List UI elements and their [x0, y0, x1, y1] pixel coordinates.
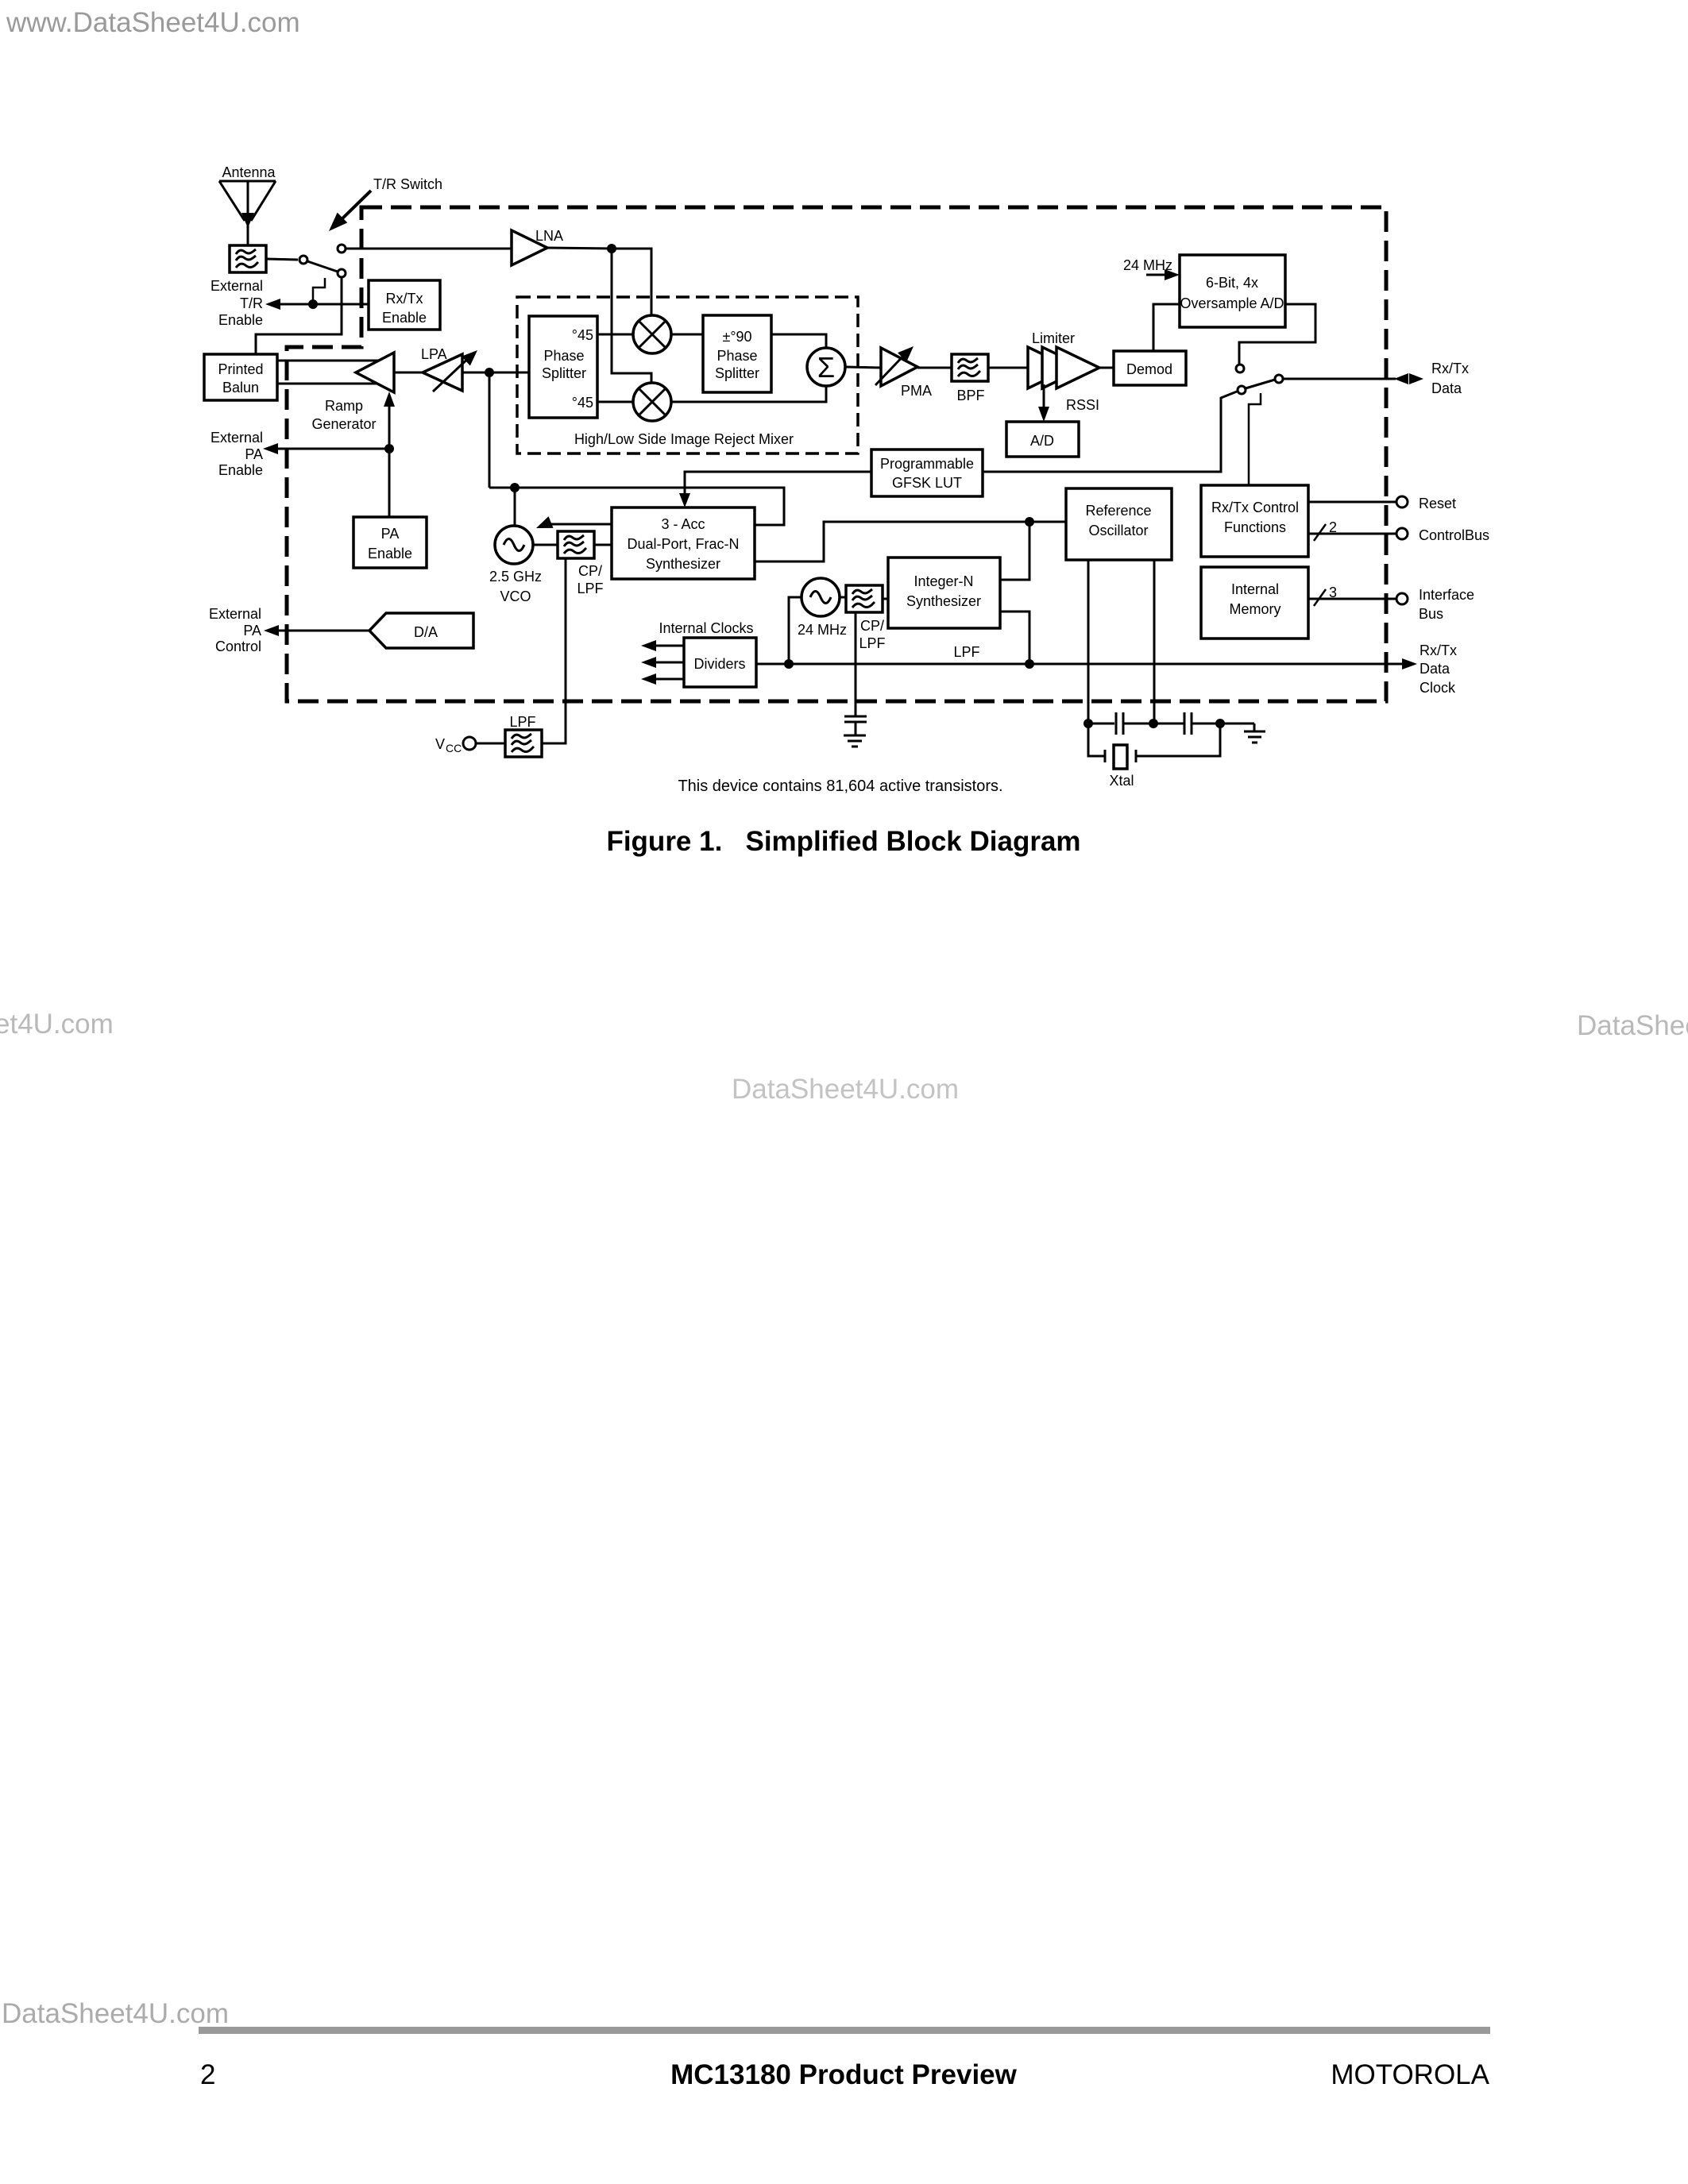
- xtal top line with caps: [1088, 712, 1254, 735]
- svg-text:MOTOROLA: MOTOROLA: [1331, 2059, 1489, 2090]
- wire VCO stub: [514, 488, 516, 526]
- T/R switch contact C (Tx): [338, 269, 346, 277]
- svg-text:Reset: Reset: [1419, 496, 1456, 511]
- wire ref osc right leg: [1153, 560, 1156, 720]
- chip boundary (dashed): [287, 207, 1386, 701]
- image reject mixer boundary (dashed): [517, 297, 858, 453]
- svg-text:Integer-N: Integer-N: [914, 573, 973, 589]
- reset port: [1396, 496, 1408, 507]
- svg-text:LPF: LPF: [953, 644, 979, 660]
- svg-text:LPA: LPA: [421, 346, 447, 362]
- Dividers box: [684, 638, 756, 687]
- T/R switch linkage: [313, 278, 325, 299]
- svg-text:DataSheet4U.com: DataSheet4U.com: [1577, 1010, 1688, 1041]
- svg-text:RSSI: RSSI: [1066, 397, 1099, 413]
- label CP/LPF 2: [859, 618, 885, 651]
- svg-text:Balun: Balun: [222, 380, 259, 396]
- Programmable GFSK LUT box: [871, 450, 983, 496]
- wire GFSK to synthesizer: [685, 472, 871, 500]
- LPA amplifier triangle: [423, 354, 462, 391]
- junction divider out: [784, 659, 794, 669]
- Printed Balun box: [204, 354, 277, 400]
- svg-text:6-Bit, 4x: 6-Bit, 4x: [1206, 275, 1258, 291]
- interface bus port: [1396, 593, 1408, 604]
- svg-text:Phase: Phase: [717, 348, 757, 364]
- svg-text:Rx/Tx Control: Rx/Tx Control: [1211, 500, 1299, 515]
- svg-text:www.DataSheet4U.com: www.DataSheet4U.com: [6, 7, 300, 38]
- wire balun to PA (bottom): [277, 383, 394, 385]
- svg-text:DataSheet4U.com: DataSheet4U.com: [732, 1074, 959, 1105]
- svg-text:LPF: LPF: [509, 714, 535, 730]
- wire splitter to mixer2: [597, 401, 633, 403]
- data switch contact (Tx): [1238, 386, 1246, 394]
- svg-text:±°90: ±°90: [722, 329, 751, 345]
- svg-text:2.5 GHz: 2.5 GHz: [489, 569, 542, 585]
- wire demod to oversample A/D: [1153, 304, 1180, 351]
- crystal branch: [1088, 723, 1220, 789]
- svg-text:High/Low Side Image Reject Mix: High/Low Side Image Reject Mixer: [574, 431, 794, 447]
- svg-text:Splitter: Splitter: [542, 365, 586, 381]
- data switch lever: [1246, 380, 1275, 388]
- wire data switch to port: [1283, 378, 1396, 380]
- footer bar: [199, 2027, 1490, 2034]
- antenna: [219, 164, 276, 245]
- svg-text:24 MHz: 24 MHz: [798, 622, 847, 638]
- svg-text:et4U.com: et4U.com: [0, 1009, 114, 1040]
- wire controlbus: [1308, 519, 1396, 541]
- svg-text:PA: PA: [243, 623, 261, 639]
- svg-text:VCO: VCO: [500, 588, 531, 604]
- wire 24MHz into A/D: [1146, 269, 1180, 280]
- data switch pole: [1275, 375, 1283, 383]
- wire ramp generator arrow: [388, 397, 391, 517]
- label External PA Control: [209, 606, 261, 654]
- wire mixer1 to 90 splitter: [671, 334, 703, 336]
- svg-text:Rx/Tx: Rx/Tx: [1420, 642, 1457, 658]
- limiter: [1028, 330, 1099, 388]
- wire LPA junction down: [489, 372, 491, 488]
- svg-text:Functions: Functions: [1224, 519, 1286, 535]
- T/R switch pointer arrow: [324, 191, 371, 236]
- junction T/R enable: [308, 299, 318, 309]
- svg-text:Bus: Bus: [1419, 606, 1443, 622]
- label Rx/Tx Data Clock: [1420, 642, 1457, 696]
- Integer-N Synthesizer box: [888, 558, 1000, 628]
- wire interface bus: [1308, 585, 1396, 606]
- svg-text:CC: CC: [446, 742, 462, 754]
- wire CP/LPF to synthesizer: [594, 544, 612, 546]
- svg-text:Xtal: Xtal: [1109, 773, 1134, 789]
- wire limiter to demod: [1099, 367, 1114, 369]
- ground (integer-N): [844, 735, 866, 747]
- wire LNA out: [547, 248, 651, 315]
- Rx/Tx data double arrow: [1394, 373, 1423, 384]
- mixer M2: [633, 383, 671, 421]
- wire: Tx contact to balun: [256, 277, 342, 354]
- wire LPF data clock line: [756, 663, 1404, 666]
- wire oversample A/D to data switch: [1239, 304, 1315, 365]
- svg-text:T/R: T/R: [240, 295, 263, 311]
- svg-text:Synthesizer: Synthesizer: [646, 556, 720, 572]
- svg-text:Programmable: Programmable: [880, 456, 974, 472]
- svg-text:D/A: D/A: [414, 624, 438, 640]
- svg-text:Demod: Demod: [1126, 361, 1172, 377]
- data switch contact (Rx): [1236, 365, 1244, 372]
- wire reset: [1308, 501, 1396, 504]
- svg-text:Rx/Tx: Rx/Tx: [386, 291, 423, 307]
- svg-text:Generator: Generator: [311, 416, 376, 432]
- D/A block: [369, 613, 473, 648]
- svg-text:External: External: [211, 430, 263, 446]
- wire: Rx contact to LNA: [346, 248, 512, 250]
- label Rx/Tx Data: [1431, 361, 1469, 396]
- junction LNA out: [607, 244, 616, 253]
- svg-text:CP/: CP/: [578, 563, 602, 579]
- wire CP/LPF2 to integer-N: [883, 598, 888, 600]
- wire GFSK to data switch: [983, 392, 1237, 472]
- wire mixer2 to summer: [671, 386, 826, 402]
- wire splitter to mixer1: [597, 334, 633, 336]
- junction VCO line: [510, 483, 520, 492]
- junction PA enable: [384, 444, 394, 453]
- LPA gain arrow: [433, 345, 481, 392]
- svg-text:External: External: [209, 606, 261, 622]
- svg-text:Figure 1. Simplified Block D: Figure 1. Simplified Block Diagram: [606, 826, 1080, 857]
- label External T/R Enable: [211, 278, 263, 328]
- PA Enable box: [353, 517, 427, 568]
- svg-text:Clock: Clock: [1420, 680, 1456, 696]
- wire VCO to CP/LPF: [533, 544, 558, 546]
- svg-text:Enable: Enable: [218, 312, 263, 328]
- LNA amplifier: [512, 228, 563, 265]
- wire filter to switch: [266, 259, 298, 260]
- Demod box: [1114, 351, 1186, 385]
- wire integer-N to LPF line: [1000, 612, 1029, 664]
- LPF filter (Vcc): [505, 730, 542, 757]
- svg-text:Phase: Phase: [543, 348, 584, 364]
- PA amplifier triangle: [356, 353, 394, 392]
- wire 90 splitter to summer: [771, 334, 826, 348]
- svg-text:Internal: Internal: [1231, 581, 1279, 597]
- antenna filter: [230, 245, 266, 272]
- internal clock arrows: [641, 640, 684, 685]
- junction xtal mid: [1149, 719, 1158, 728]
- wire synthesizer to reference line: [755, 522, 1066, 561]
- svg-text:External: External: [211, 278, 263, 294]
- svg-text:Limiter: Limiter: [1032, 330, 1075, 346]
- svg-text:Data: Data: [1420, 661, 1450, 677]
- CP/LPF filter (integer-N): [846, 585, 883, 612]
- svg-text:2: 2: [200, 2059, 215, 2090]
- Internal Memory box: [1201, 567, 1308, 639]
- wire reference junction to integer-N: [1000, 522, 1029, 580]
- svg-text:2: 2: [1329, 519, 1337, 535]
- junction integer-N LPF: [1025, 659, 1034, 669]
- svg-text:3 - Acc: 3 - Acc: [661, 516, 705, 532]
- svg-text:Σ: Σ: [817, 351, 835, 384]
- svg-text:LNA: LNA: [535, 228, 563, 244]
- mixer M1: [633, 315, 671, 353]
- junction reference line: [1025, 517, 1034, 527]
- svg-text:Printed: Printed: [218, 361, 263, 377]
- svg-text:LPF: LPF: [577, 581, 603, 596]
- label External PA Enable: [211, 430, 263, 478]
- svg-text:3: 3: [1329, 585, 1337, 600]
- svg-text:Splitter: Splitter: [715, 365, 759, 381]
- svg-text:PMA: PMA: [901, 383, 932, 399]
- label CP/LPF: [577, 563, 603, 596]
- PMA amplifier: [875, 341, 932, 399]
- svg-text:This device contains 81,604 ac: This device contains 81,604 active trans…: [678, 778, 1002, 795]
- Reference Oscillator box: [1066, 488, 1172, 560]
- Rx/Tx Enable box: [369, 280, 440, 330]
- Vcc port: [435, 736, 476, 754]
- svg-text:Rx/Tx: Rx/Tx: [1431, 361, 1469, 376]
- svg-text:LPF: LPF: [859, 635, 885, 651]
- junction xtal left: [1083, 719, 1093, 728]
- svg-text:V: V: [435, 736, 445, 752]
- svg-text:Ramp: Ramp: [325, 398, 363, 414]
- wire LNA junction to mixer2: [612, 249, 651, 383]
- wire RSSI arrow: [1038, 384, 1099, 422]
- arrowhead external T/R enable: [265, 299, 280, 310]
- wire 24MHz to CP/LPF2: [840, 596, 846, 599]
- junction LPA out: [485, 368, 494, 377]
- svg-text:Interface: Interface: [1419, 587, 1474, 603]
- svg-text:Memory: Memory: [1229, 601, 1280, 617]
- T/R switch contact B: [299, 256, 307, 264]
- svg-text:Internal Clocks: Internal Clocks: [659, 620, 753, 636]
- wire LPA out to phase splitter: [462, 372, 529, 374]
- 2.5 GHz VCO: [489, 526, 542, 604]
- svg-text:Enable: Enable: [218, 462, 263, 478]
- svg-text:Enable: Enable: [382, 310, 427, 326]
- capacitor to ground: [844, 716, 867, 735]
- T/R switch contact A (Rx): [338, 245, 346, 253]
- T/R switch lever: [307, 261, 338, 272]
- svg-text:CP/: CP/: [860, 618, 884, 634]
- +/-90 Phase Splitter box: [703, 315, 771, 392]
- wire PMA to BPF: [917, 367, 952, 369]
- svg-text:Oscillator: Oscillator: [1088, 523, 1148, 538]
- svg-text:PA: PA: [245, 446, 263, 462]
- junction xtal right: [1215, 719, 1225, 728]
- svg-text:A/D: A/D: [1030, 433, 1054, 449]
- wire CP/LPF2 to cap: [855, 612, 857, 716]
- wire summer to PMA: [845, 367, 881, 368]
- svg-text:BPF: BPF: [956, 388, 984, 403]
- Phase Splitter box: [529, 316, 597, 418]
- wire BPF to limiter: [988, 367, 1029, 369]
- wire Vcc to LPF: [476, 743, 505, 745]
- wire external PA enable: [276, 448, 389, 450]
- wire external PA control: [276, 630, 369, 632]
- Rx/Tx Control Functions box: [1201, 485, 1308, 557]
- controlbus port: [1396, 528, 1408, 539]
- summer: [807, 348, 845, 386]
- wire balun to PA (top): [277, 360, 394, 362]
- label Ramp Generator: [311, 398, 376, 432]
- svg-text:°45: °45: [572, 395, 593, 411]
- svg-text:MC13180 Product Preview: MC13180 Product Preview: [670, 2059, 1018, 2090]
- 6-bit oversample A/D box: [1180, 255, 1285, 327]
- svg-text:PA: PA: [381, 526, 400, 542]
- svg-text:Enable: Enable: [368, 546, 412, 561]
- svg-text:DataSheet4U.com: DataSheet4U.com: [2, 1998, 229, 2029]
- data switch linkage: [1249, 393, 1261, 485]
- 3-Acc synthesizer box: [612, 507, 755, 579]
- wire junction to 24MHz osc: [789, 597, 802, 664]
- svg-text:Control: Control: [215, 639, 261, 654]
- svg-text:Data: Data: [1431, 380, 1462, 396]
- wire synthesizer TX line: [489, 488, 784, 525]
- svg-text:Reference: Reference: [1085, 503, 1151, 519]
- CP/LPF filter (frac-N): [558, 531, 594, 558]
- wire PA to LPA: [394, 372, 423, 374]
- svg-text:T/R Switch: T/R Switch: [373, 176, 442, 192]
- ground (xtal): [1244, 723, 1265, 743]
- svg-text:Dual-Port, Frac-N: Dual-Port, Frac-N: [627, 536, 739, 552]
- wire LPF up to CP/LPF: [542, 559, 566, 743]
- BPF filter: [952, 354, 988, 381]
- 24 MHz oscillator: [798, 578, 847, 638]
- A/D box: [1006, 422, 1079, 457]
- svg-text:Oversample A/D: Oversample A/D: [1180, 295, 1284, 311]
- wire ref osc left leg: [1087, 560, 1090, 720]
- wire: external T/R enable: [278, 303, 369, 306]
- svg-text:°45: °45: [572, 327, 593, 343]
- wire synthesizer to VCO (tune arrow): [534, 516, 612, 534]
- svg-text:Synthesizer: Synthesizer: [906, 593, 981, 609]
- label Interface Bus: [1419, 587, 1474, 622]
- svg-text:GFSK LUT: GFSK LUT: [892, 475, 962, 491]
- svg-text:ControlBus: ControlBus: [1419, 527, 1489, 543]
- svg-text:Antenna: Antenna: [222, 164, 276, 180]
- svg-text:Dividers: Dividers: [693, 656, 745, 672]
